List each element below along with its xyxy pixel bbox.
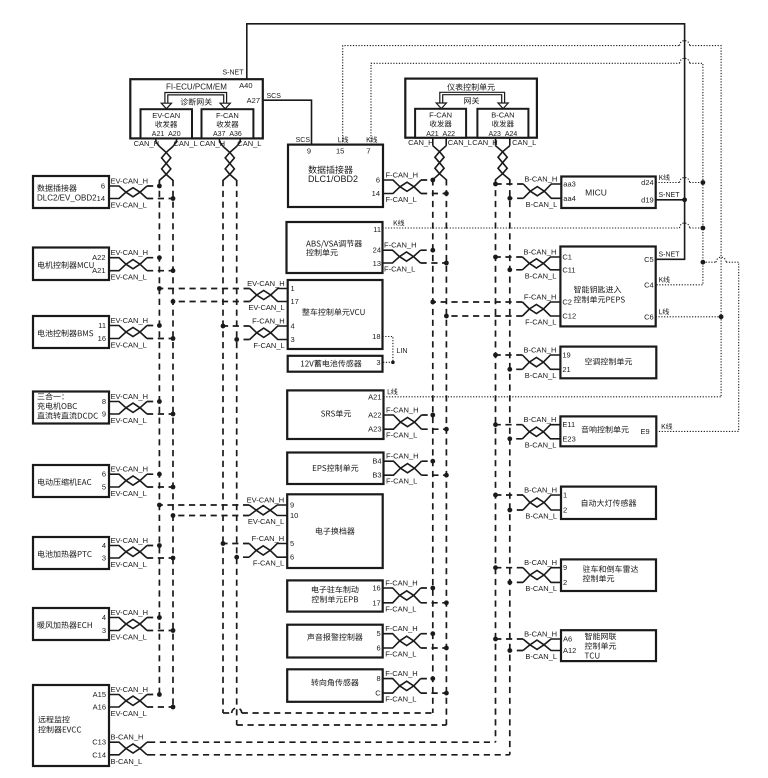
svg-text:B-CAN_L: B-CAN_L [526,200,558,209]
ECU box SRS单元 [287,390,383,439]
svg-text:LIN: LIN [397,348,408,355]
svg-text:C1: C1 [562,253,572,262]
ECU box VCU 整车控制单元 [288,280,383,349]
transceiver sub-box EV-CAN 收发器 (pins A21 A20) [141,109,193,138]
svg-text:B-CAN_L: B-CAN_L [525,271,557,280]
svg-text:B-CAN_L: B-CAN_L [525,440,557,449]
svg-text:F-CAN_H: F-CAN_H [385,669,418,678]
ECU box MICU [561,177,655,209]
svg-text:4: 4 [291,322,295,331]
svg-text:5: 5 [102,483,106,492]
svg-text:SCS: SCS [296,137,311,144]
svg-text:5: 5 [290,539,294,548]
svg-text:C13: C13 [92,738,106,747]
svg-text:6: 6 [101,181,105,190]
svg-text:16: 16 [98,334,106,343]
svg-text:16: 16 [372,584,380,593]
svg-text:C: C [375,689,381,698]
svg-text:3: 3 [102,554,106,563]
wire EV-CAN pair DLC2 to bus [109,186,147,197]
svg-text:E11: E11 [562,420,575,429]
wire EV-CAN bus twisted start under EV transceiver [156,138,160,146]
ECU box steering angle sensor 转向角传感器 [287,669,383,702]
wire L-line (dotted): DLC1 pin15 up, across top, down right side [343,46,680,145]
svg-text:17: 17 [291,297,299,306]
svg-text:EV-CAN_L: EV-CAN_L [248,517,284,526]
svg-text:C11: C11 [562,265,575,274]
ECU box EPB 电子驻车制动控制单元 [287,580,383,611]
svg-text:CAN_L: CAN_L [512,138,536,147]
svg-text:18: 18 [372,332,380,341]
wire EV-CAN_L bus vertical [172,180,174,707]
ECU box BMS 电池控制器 [33,316,109,348]
svg-text:EV-CAN_L: EV-CAN_L [111,560,147,569]
gateway arrows 网关 [440,92,505,103]
ECU box EPS控制单元 [287,453,383,485]
wire EV-CAN pair BMS to bus [109,326,147,337]
ECU box shifter 电子换档器 [287,494,383,568]
svg-text:6: 6 [290,553,294,562]
ECU box parking radar 驻车和倒车雷达控制单元 [561,559,656,591]
svg-text:21: 21 [562,365,570,374]
svg-text:S-NET: S-NET [223,70,245,77]
svg-text:EV-CAN_H: EV-CAN_H [111,536,149,545]
svg-text:3: 3 [291,335,295,344]
svg-text:B4: B4 [372,457,381,466]
svg-text:9: 9 [563,563,567,572]
wire EV-CAN pair EVCC to bus (bus end) [109,695,147,706]
svg-text:E9: E9 [641,427,650,436]
svg-text:EV-CAN_H: EV-CAN_H [111,685,149,694]
svg-text:B-CAN_H: B-CAN_H [111,733,144,742]
ECU box PTC 电池加热器 [33,537,109,569]
svg-text:B3: B3 [372,471,381,480]
svg-text:B-CAN_H: B-CAN_H [524,175,557,184]
wire B-CAN pair radar to bus [523,568,561,580]
svg-text:B-CAN_H: B-CAN_H [524,486,557,495]
svg-text:3: 3 [102,626,106,635]
svg-text:d19: d19 [641,195,654,204]
svg-text:C4: C4 [644,280,654,289]
ECU box AC control 空调控制单元 [560,347,656,379]
ECU box TCU 智能网联控制单元 [561,630,656,661]
svg-text:F-CAN_H: F-CAN_H [386,452,419,461]
ECU box 仪表控制单元 (gateway) [405,79,537,138]
wire F-CAN(left) bus twisted start under F transceiver [220,138,224,146]
svg-text:19: 19 [562,351,570,360]
wire B-CAN_L bus vertical + bottom run to EVCC [509,179,511,755]
svg-text:2: 2 [563,505,567,514]
svg-text:2: 2 [563,578,567,587]
svg-text:CAN_H: CAN_H [472,138,497,147]
wire B-CAN_H bus vertical + bottom run to EVCC [495,179,497,742]
node K-line junction at MICU d24 [656,182,680,184]
svg-text:A37 A36: A37 A36 [213,131,242,138]
wire F-CAN(right) bus twisted start under cluster F transceiver [432,138,434,146]
svg-text:A21: A21 [92,266,105,275]
wire F-CAN pair steering sensor to right bus [383,679,421,691]
svg-text:SCS: SCS [267,93,282,100]
svg-text:A12: A12 [563,646,576,655]
svg-text:EV-CAN_H: EV-CAN_H [111,465,149,474]
svg-text:A21 A20: A21 A20 [152,131,181,138]
svg-text:9: 9 [290,501,294,510]
svg-text:1: 1 [291,284,295,293]
svg-text:6: 6 [376,176,380,185]
svg-text:A21: A21 [368,392,381,401]
ECU box FI-ECU/PCM/EM (diagnostic gateway) [130,79,262,138]
svg-text:8: 8 [377,674,381,683]
svg-text:14: 14 [97,194,105,203]
svg-text:6: 6 [377,644,381,653]
svg-text:EV-CAN_H: EV-CAN_H [111,248,149,257]
svg-text:d24: d24 [641,178,654,187]
svg-text:F-CAN_L: F-CAN_L [385,650,416,659]
svg-text:11: 11 [373,225,381,234]
svg-text:F-CAN_H: F-CAN_H [524,293,557,302]
ECU box EAC 电动压缩机 [33,465,109,497]
wire F-CAN pair SRS to right bus [384,415,422,427]
svg-text:EV-CAN_L: EV-CAN_L [111,633,147,642]
svg-text:aa4: aa4 [563,194,576,203]
svg-text:aa3: aa3 [563,180,576,189]
wire F-CAN pair ABS to right bus [383,250,421,261]
wire L-line row to SRS A21 [384,396,722,398]
wire EV-CAN pair OBC to bus [109,402,147,413]
wire SCS (solid): FI-ECU A27 to DLC1 pin 9 [263,100,312,144]
wire B-CAN pair audio to bus [522,425,560,437]
svg-text:EV-CAN_H: EV-CAN_H [111,316,149,325]
svg-text:EV-CAN_L: EV-CAN_L [111,201,147,210]
svg-text:A21 A22: A21 A22 [426,131,455,138]
svg-text:FI-ECU/PCM/EM: FI-ECU/PCM/EM [166,83,227,92]
svg-text:A40: A40 [239,81,252,90]
svg-text:B-CAN_L: B-CAN_L [525,371,557,380]
svg-text:8: 8 [102,397,106,406]
ECU box ECH 暖风加热器 [33,608,109,640]
svg-text:7: 7 [366,147,370,156]
svg-text:A22: A22 [368,411,381,420]
svg-text:B-CAN_H: B-CAN_H [524,630,557,639]
wire B-CAN pair EVCC to bus bottom [109,742,147,753]
svg-text:9: 9 [102,410,106,419]
ECU box audio 音响控制单元 (E9) [560,416,656,446]
svg-text:C6: C6 [644,312,654,321]
gateway arrows 诊断网关 [165,93,227,104]
ECU box auto headlight sensor 自动大灯传感器 [561,487,656,519]
svg-text:B-CAN_L: B-CAN_L [525,652,557,661]
svg-text:F-CAN_L: F-CAN_L [253,341,284,350]
ECU box EVCC 远程监控控制器 [33,685,109,766]
svg-text:EV-CAN_H: EV-CAN_H [247,279,285,288]
svg-text:13: 13 [373,259,381,268]
svg-text:C12: C12 [562,312,576,321]
svg-text:CAN_L: CAN_L [448,138,472,147]
svg-text:DLC2/EV_OBD2: DLC2/EV_OBD2 [37,194,97,203]
svg-text:A23 A24: A23 A24 [488,131,517,138]
wire F-CAN_L right bus vertical [445,179,447,725]
wire B-CAN bus twisted start under cluster B transceiver [495,138,497,146]
ECU box PEPS 智能钥匙进入控制单元 [560,247,655,327]
svg-text:6: 6 [102,470,106,479]
svg-text:EV-CAN_H: EV-CAN_H [247,496,285,505]
svg-text:B-CAN: B-CAN [491,110,514,119]
svg-text:15: 15 [336,147,344,156]
wire EV-CAN pair EAC to bus [109,474,147,485]
wire B-CAN pair TCU to bus [523,639,561,649]
svg-text:F-CAN_L: F-CAN_L [386,431,417,440]
svg-text:3: 3 [376,358,380,367]
svg-text:B-CAN_L: B-CAN_L [525,584,557,593]
node L-line junction at PEPS C6 [656,316,721,318]
wire LIN (dotted): VCU pin18 to 12V battery sensor pin3 [383,337,393,363]
wire F-CAN_L left bus vertical + bottom join [236,180,238,725]
wire S-NET (solid): FI-ECU A40 up, across top, down right side to PEPS C5 [247,24,685,259]
wire F-CAN pair DLC1 to right bus top [383,180,421,191]
svg-text:A6: A6 [563,635,572,644]
svg-text:S-NET: S-NET [659,192,681,199]
svg-text:EV-CAN_L: EV-CAN_L [111,416,147,425]
wire B-CAN pair PEPS to bus [522,257,560,268]
svg-text:C2: C2 [562,298,572,307]
wire F-CAN pair EPB to right bus [383,588,421,600]
svg-text:CAN_H: CAN_H [408,138,433,147]
wire K-line row from ABS pin11 [383,227,680,229]
svg-text:F-CAN_L: F-CAN_L [385,695,416,704]
svg-text:F-CAN_H: F-CAN_H [386,171,419,180]
ECU box DLC1/OBD2 数据插接器 [288,145,383,207]
svg-text:EV-CAN_L: EV-CAN_L [111,341,147,350]
wire F-CAN_H left bus vertical + bottom join [222,180,224,713]
wire EV-CAN pair ECH to bus [109,618,147,629]
wire B-CAN pair MICU to bus [523,184,561,196]
ECU box MCU 电机控制器 [33,248,109,281]
ECU box ABS/VSA 调节器控制单元 [287,222,383,273]
ECU box OBC/DCDC 三合一 [33,392,109,424]
wire EV-CAN pair shifter to left bus [249,505,287,515]
svg-text:B-CAN_H: B-CAN_H [523,415,556,424]
svg-text:F-CAN_L: F-CAN_L [525,318,556,327]
wire EV-CAN pair MCU to bus [109,258,147,269]
svg-text:5: 5 [377,629,381,638]
svg-text:17: 17 [372,598,380,607]
svg-text:F-CAN_H: F-CAN_H [385,624,418,633]
svg-text:B-CAN_H: B-CAN_H [523,248,556,257]
svg-text:F-CAN_L: F-CAN_L [253,559,284,568]
wire K-line branch to audio E9 [703,261,716,263]
svg-text:4: 4 [102,613,106,622]
svg-text:14: 14 [372,189,380,198]
svg-text:E23: E23 [562,434,575,443]
wire EV-CAN_H bus vertical [158,180,160,694]
transceiver sub-box F-CAN 收发器 (pins A21 A22) [415,109,466,138]
svg-text:F-CAN_H: F-CAN_H [385,579,418,588]
svg-text:DLC1/OBD2: DLC1/OBD2 [308,174,358,184]
svg-text:B-CAN_H: B-CAN_H [523,346,556,355]
wire K-line (dotted): DLC1 pin7 up, across top, down right side to PEPS C4 [371,63,680,144]
wire B-CAN pair headlight sensor to bus [523,495,561,507]
svg-text:F-CAN_L: F-CAN_L [384,265,415,274]
svg-text:1: 1 [563,491,567,500]
svg-text:EV-CAN_L: EV-CAN_L [111,489,147,498]
svg-text:EV-CAN_L: EV-CAN_L [111,709,147,718]
svg-text:F-CAN_H: F-CAN_H [386,406,419,415]
svg-text:24: 24 [373,246,381,255]
svg-text:F-CAN_L: F-CAN_L [386,477,417,486]
svg-text:A15: A15 [93,690,106,699]
transceiver sub-box B-CAN 收发器 (pins A23 A24) [477,109,528,138]
wire F-CAN pair VCU to left bus [250,326,288,337]
svg-text:11: 11 [98,321,106,330]
svg-text:10: 10 [290,511,298,520]
node S-NET junction at MICU d19 [656,199,685,201]
svg-text:A16: A16 [93,703,106,712]
svg-text:A27: A27 [247,96,260,105]
svg-text:EV-CAN_L: EV-CAN_L [248,303,284,312]
svg-text:A22: A22 [92,253,105,262]
svg-text:F-CAN: F-CAN [429,110,452,119]
svg-text:B-CAN_H: B-CAN_H [524,558,557,567]
wire EV-CAN pair VCU to left bus [250,289,288,300]
svg-text:F-CAN_H: F-CAN_H [384,241,417,250]
svg-text:B-CAN_L: B-CAN_L [525,512,557,521]
ECU box DLC2/EV_OBD2 数据插接器 [33,176,109,208]
svg-text:EV-CAN_L: EV-CAN_L [111,273,147,282]
svg-text:C14: C14 [92,750,106,759]
svg-text:F-CAN_H: F-CAN_H [252,317,285,326]
wire F-CAN pair alarm to right bus [383,634,421,646]
svg-text:F-CAN: F-CAN [216,111,239,120]
svg-text:A23: A23 [368,425,381,434]
svg-text:S-NET: S-NET [659,251,681,258]
svg-text:EV-CAN: EV-CAN [152,111,180,120]
wire EV-CAN pair PTC to bus [109,546,147,557]
wire B-CAN pair AC to bus [522,355,560,367]
svg-text:B-CAN_L: B-CAN_L [111,757,143,766]
wire F-CAN pair EPS to right bus [384,461,422,473]
svg-text:EV-CAN_H: EV-CAN_H [111,608,149,617]
wire F-CAN pair shifter to left bus [249,544,287,556]
wire F-CAN pair PEPS to right bus [522,302,560,314]
svg-text:MICU: MICU [585,188,607,198]
ECU box alarm 声音报警控制器 [287,625,383,658]
ECU box 12V battery sensor 12V蓄电池传感器 [288,356,383,372]
transceiver sub-box F-CAN 收发器 (pins A37 A36) [202,109,254,138]
svg-text:F-CAN_L: F-CAN_L [385,604,416,613]
svg-text:EV-CAN_H: EV-CAN_H [111,177,149,186]
svg-text:F-CAN_H: F-CAN_H [252,534,285,543]
wire F-CAN_H right bus vertical [432,179,434,713]
svg-text:EV-CAN_H: EV-CAN_H [111,392,149,401]
svg-text:9: 9 [307,147,311,156]
svg-text:C5: C5 [644,255,654,264]
svg-text:4: 4 [102,541,106,550]
svg-text:F-CAN_L: F-CAN_L [386,195,417,204]
